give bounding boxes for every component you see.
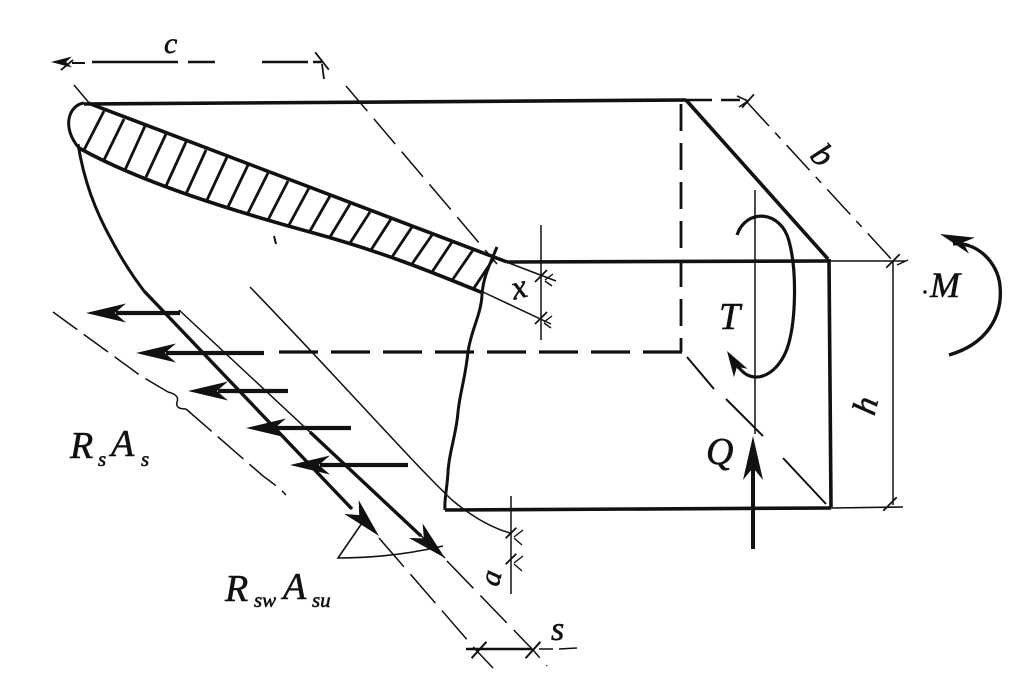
- beam top-right receding edge: [686, 100, 828, 259]
- R_s A_s leader line (dash-dot with break jog): [53, 312, 168, 392]
- svg-text:c: c: [164, 27, 177, 60]
- s dimension line: [466, 648, 532, 651]
- stirrup force arrow (R_sw direction 2): [310, 432, 421, 536]
- beam front right edge: [829, 259, 831, 507]
- bottom crack line with arrow (R_sw direction 1): [144, 291, 352, 509]
- beam top rear edge: [84, 100, 686, 104]
- svg-text:s: s: [551, 611, 564, 648]
- b dimension line (dash-dot): [746, 101, 893, 261]
- c extension to corner: [74, 85, 90, 104]
- front torn edge (wavy): [445, 247, 497, 510]
- fan arc under stirrup arrows: [338, 523, 443, 558]
- h dimension line: [892, 261, 894, 505]
- thin crack-parallel line (outer): [179, 310, 445, 558]
- crack band upper edge: [88, 103, 507, 262]
- hidden bottom receding edge: [687, 357, 826, 504]
- beam bottom front edge: [445, 508, 831, 510]
- left torn edge (wavy): [78, 144, 144, 291]
- crack band hatching: [84, 111, 494, 288]
- crack-tip reference line: [346, 86, 497, 264]
- stray mark: [274, 236, 276, 244]
- x dimension line: [540, 225, 542, 340]
- torque loop T arrow: [730, 216, 795, 377]
- s leader right (from stirrup line): [447, 561, 547, 666]
- s leader left (from crack line): [379, 538, 493, 668]
- longitudinal bar force arrows R_s A_s (5 left arrows): [116, 311, 180, 315]
- hidden rear bottom edge (dashed): [279, 350, 684, 353]
- thin crack-parallel line (inner): [250, 287, 510, 533]
- beam front top edge: [507, 261, 830, 262]
- svg-text:M: M: [929, 265, 962, 305]
- crack band left hairpin: [69, 103, 84, 148]
- crack band lower edge: [79, 148, 483, 293]
- Q line of action: [754, 190, 756, 434]
- bending moment arc M: [949, 244, 1000, 355]
- svg-text:Q: Q: [706, 431, 733, 473]
- Q force arrow: [751, 452, 755, 549]
- a dimension line: [510, 496, 512, 594]
- svg-text:T: T: [719, 296, 743, 338]
- dimension c line: [92, 61, 322, 63]
- hidden rear right edge (dashed): [680, 104, 683, 352]
